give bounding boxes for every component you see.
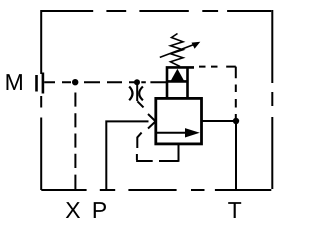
junction node at outlet bbox=[233, 118, 239, 124]
pilot valve body bbox=[167, 67, 194, 98]
port T line bbox=[235, 121, 237, 190]
vent line from pilot valve to outlet (dashed) bbox=[199, 67, 236, 118]
pilot spring bbox=[171, 34, 184, 67]
orifice (restrictor arcs) bbox=[129, 87, 143, 101]
enclosure top edge (dashed) bbox=[41, 10, 271, 12]
pilot line from M to orifice (dashed) bbox=[44, 81, 135, 83]
gauge port M symbol bbox=[37, 73, 43, 94]
junction node at orifice branch bbox=[134, 79, 140, 85]
pilot diagonal line orifice to valve (dashed) bbox=[137, 101, 143, 107]
port X line (dashed) bbox=[74, 93, 76, 190]
drain line from valve bottom bbox=[178, 143, 180, 162]
drain pilot diagonal and dashed drain path bbox=[136, 133, 178, 161]
junction node at X branch bbox=[72, 79, 78, 85]
port X label bbox=[66, 202, 80, 218]
port M label bbox=[7, 74, 22, 90]
pilot line from orifice node to pilot valve (dashed) bbox=[141, 81, 166, 83]
enclosure left edge bbox=[40, 10, 42, 190]
enclosure right edge (dashed) bbox=[271, 10, 273, 189]
main valve body bbox=[156, 98, 202, 143]
P inlet arrowhead at valve bbox=[148, 114, 156, 129]
port P line bbox=[105, 121, 148, 189]
port T label bbox=[228, 202, 241, 218]
pilot poppet (filled triangle) bbox=[167, 69, 188, 82]
main valve flow path arrow bbox=[157, 128, 200, 137]
spring adjustment arrow bbox=[160, 42, 201, 58]
port P label bbox=[94, 202, 106, 218]
valve outlet line bbox=[201, 120, 236, 122]
enclosure bottom edge (dashed) bbox=[41, 189, 271, 191]
orifice flow line bbox=[136, 85, 138, 102]
